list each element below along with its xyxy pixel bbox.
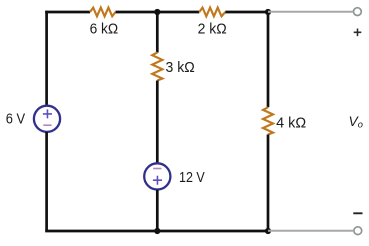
wire right rail top (node to 4k) [267,12,270,107]
svg-text:6 kΩ: 6 kΩ [90,21,119,38]
svg-text:6 V: 6 V [6,111,26,128]
label plus output polarity [354,29,362,37]
voltage source 6 V circle [34,106,60,132]
12 V minus sign [153,168,161,170]
node bottom middle [154,228,160,234]
wire gray bottom lead to output terminal [268,230,353,232]
6 V minus sign [43,124,51,126]
node top right [265,9,271,15]
node bottom right [265,228,271,234]
svg-text:12 V: 12 V [179,169,205,186]
wire gray top lead to output terminal [268,11,353,13]
wire middle rail top (node to 3k) [156,12,159,53]
6 V plus sign [43,109,52,118]
resistor 3 kOhm [152,53,162,81]
wire bottom rail [45,230,268,233]
terminal top output [354,8,362,16]
wire top rail between 2k and right node [225,11,268,14]
resistor 2 kOhm [199,8,225,17]
label minus output polarity [353,212,362,214]
wire middle rail between 3k and 12V source [156,81,159,164]
wire top-left horizontal (top rail left of 6k) [45,11,90,14]
resistor 6 kOhm [90,8,116,17]
wire middle rail bottom (12V source to bottom rail) [156,190,159,231]
terminal bottom output [354,227,362,235]
wire left rail lower segment [45,132,48,231]
wire top rail between 6k and 2k [116,11,200,14]
svg-text:Vo: Vo [349,114,363,130]
voltage source 12 V circle [144,163,170,189]
resistor 4 kOhm [263,107,273,134]
wire left rail upper segment [45,11,48,106]
svg-text:4 kΩ: 4 kΩ [276,115,306,132]
svg-text:2 kΩ: 2 kΩ [198,21,227,38]
node top middle [154,9,160,15]
12 V plus sign [153,176,162,185]
wire right rail bottom (4k to bottom rail) [267,135,270,232]
svg-text:3 kΩ: 3 kΩ [166,59,195,76]
